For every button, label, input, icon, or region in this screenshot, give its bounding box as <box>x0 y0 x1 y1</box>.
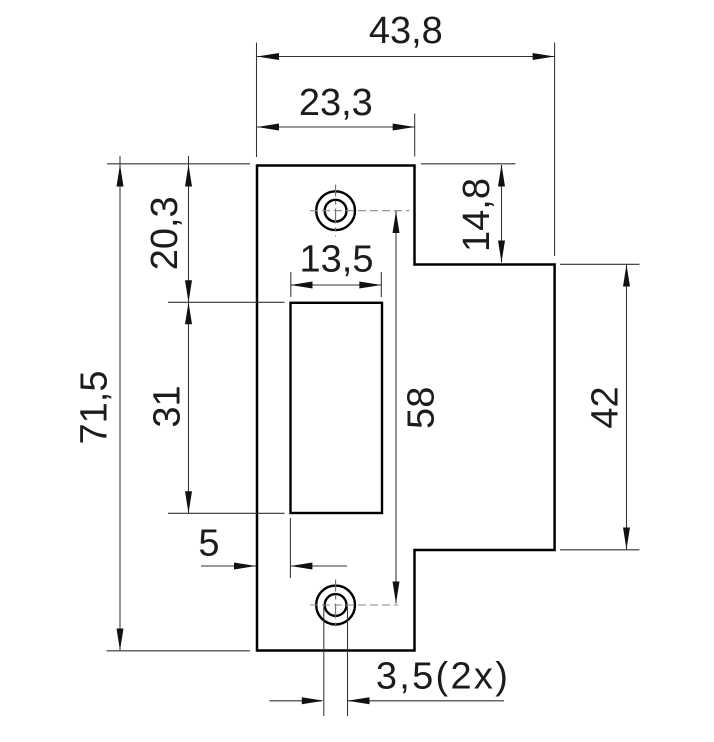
svg-text:42: 42 <box>585 386 627 428</box>
dimension 23,3 top-section width <box>257 82 415 157</box>
dimension 20,3 hole offset <box>107 156 285 302</box>
svg-text:31: 31 <box>147 385 189 427</box>
dimension 3,5(2x) hole diameter <box>270 607 511 716</box>
svg-text:3,5(2x): 3,5(2x) <box>376 656 510 698</box>
svg-text:13,5: 13,5 <box>300 239 374 281</box>
dimension 71,5 overall height <box>74 156 251 651</box>
latch cutout rectangle <box>291 303 383 513</box>
dimension 31 cutout height <box>147 302 285 513</box>
svg-text:43,8: 43,8 <box>369 10 443 52</box>
svg-text:58: 58 <box>401 387 443 429</box>
dimension 58 hole spacing <box>393 211 443 604</box>
dimension 13,5 cutout width <box>291 239 382 298</box>
svg-text:14,8: 14,8 <box>456 178 498 252</box>
dimension 14,8 tab offset <box>421 164 516 263</box>
dimension 42 tab height <box>560 264 640 550</box>
bottom hole centerline vertical <box>335 580 337 631</box>
top hole centerline vertical <box>335 185 337 237</box>
top hole centerline horizontal <box>310 210 410 212</box>
dimension 5 cutout offset <box>198 518 347 578</box>
bottom screw hole <box>316 586 355 625</box>
bottom hole centerline horizontal <box>310 604 398 606</box>
svg-text:71,5: 71,5 <box>74 371 116 445</box>
plate outline <box>257 166 555 651</box>
svg-text:20,3: 20,3 <box>144 196 186 270</box>
top screw hole <box>316 191 355 230</box>
svg-text:5: 5 <box>198 523 219 565</box>
dimension 43,8 overall width <box>257 10 555 256</box>
svg-text:23,3: 23,3 <box>299 82 373 124</box>
